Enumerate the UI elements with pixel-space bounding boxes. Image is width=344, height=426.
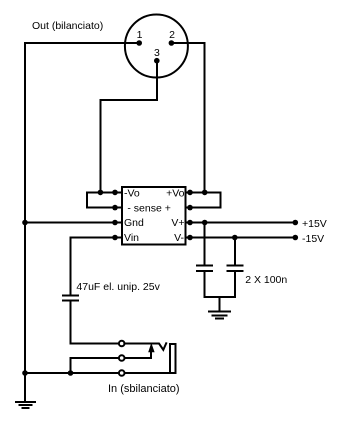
svg-text:+15V: +15V xyxy=(302,218,327,230)
wire: V+ down to C2 xyxy=(204,223,206,265)
junction: pin2 wire at +Vo row xyxy=(202,190,208,196)
op-amp U1 body xyxy=(122,187,185,245)
junction: V+ at C2 xyxy=(202,220,208,226)
jack plug body xyxy=(170,344,175,373)
svg-text:2 X 100n: 2 X 100n xyxy=(245,274,287,286)
junction: V- at C3 xyxy=(232,235,238,241)
pin dot: -Vo xyxy=(112,190,118,196)
wire: -sense pin stub xyxy=(87,207,122,209)
junction: pin3 wire at -Vo row xyxy=(98,190,104,196)
wire: caps common bottom xyxy=(205,296,235,298)
ground: supply decoupling xyxy=(209,311,230,318)
wire: XLR pin 3 down to -Vo row xyxy=(100,61,156,193)
pin dot: +Vo xyxy=(187,190,193,196)
junction: bottom run at left rail xyxy=(22,370,28,376)
pin dot: Vin xyxy=(112,235,118,241)
wire: Vin pin stub xyxy=(71,237,123,239)
wire: -Vo to -sense link xyxy=(86,192,88,207)
svg-text:Out (bilanciato): Out (bilanciato) xyxy=(32,20,103,32)
svg-text:2: 2 xyxy=(169,29,175,41)
wire: XLR pin 1 to left rail xyxy=(25,42,139,44)
junction: ring link at bottom run xyxy=(68,370,74,376)
jack tip contact xyxy=(119,341,125,347)
XLR connector J1 xyxy=(125,15,188,78)
wire: XLR pin 2 down to +Vo row xyxy=(171,43,204,192)
jack sleeve contact xyxy=(119,370,125,376)
jack ring arrow head xyxy=(148,343,154,352)
jack ring contact xyxy=(119,355,125,361)
pin dot: sense+ xyxy=(187,205,193,211)
junction: Gnd row at left rail xyxy=(22,220,28,226)
wire: V- row to -15V terminal xyxy=(185,237,295,239)
svg-text:+Vo: +Vo xyxy=(166,188,185,200)
pin dot: V+ xyxy=(187,220,193,226)
svg-text:In (sbilanciato): In (sbilanciato) xyxy=(108,383,180,395)
capacitor C1 47uF electrolytic xyxy=(63,296,78,301)
pin dot: -sense xyxy=(112,205,118,211)
wire: Gnd pin to left rail xyxy=(25,222,122,224)
svg-text:47uF el. unip. 25v: 47uF el. unip. 25v xyxy=(76,281,160,293)
wire: jack ring to down link xyxy=(71,358,119,373)
wire: -Vo pin stub xyxy=(87,191,122,193)
svg-text:1: 1 xyxy=(137,29,143,41)
jack ring arrow stem xyxy=(124,351,151,359)
ground: main (left rail) xyxy=(16,402,35,408)
svg-text:V-: V- xyxy=(174,232,184,244)
wire: +Vo to sense+ feedback loop xyxy=(185,192,220,207)
terminal: -15V xyxy=(293,235,299,241)
capacitor C3 100n xyxy=(227,266,242,297)
pin dot: V- xyxy=(187,235,193,241)
svg-text:Gnd: Gnd xyxy=(124,217,144,229)
svg-text:-15V: -15V xyxy=(302,233,324,245)
wire: left ground rail xyxy=(24,43,26,402)
jack plug sleeve line xyxy=(124,372,175,374)
svg-text:3: 3 xyxy=(154,47,160,59)
wire: supply ground stem xyxy=(219,297,221,310)
wire: V- down to C3 xyxy=(234,238,236,265)
XLR pin 1 xyxy=(136,40,142,46)
pin dot: Gnd xyxy=(112,220,118,226)
wire: bottom ground run xyxy=(25,372,119,374)
XLR pin 2 xyxy=(169,40,175,46)
svg-text:V+: V+ xyxy=(171,217,184,229)
svg-text:Vin: Vin xyxy=(124,232,139,244)
capacitor C2 100n xyxy=(197,266,212,297)
svg-text:- sense +: - sense + xyxy=(127,202,170,214)
wire: C1 bottom to jack tip xyxy=(71,301,119,344)
svg-text:-Vo: -Vo xyxy=(124,188,140,200)
wire: Vin down to C1 xyxy=(70,238,72,295)
wire: V+ row to +15V terminal xyxy=(185,222,295,224)
jack plug tip line with notch xyxy=(124,343,166,350)
XLR pin 3 xyxy=(154,58,160,64)
terminal: +15V xyxy=(293,220,299,226)
